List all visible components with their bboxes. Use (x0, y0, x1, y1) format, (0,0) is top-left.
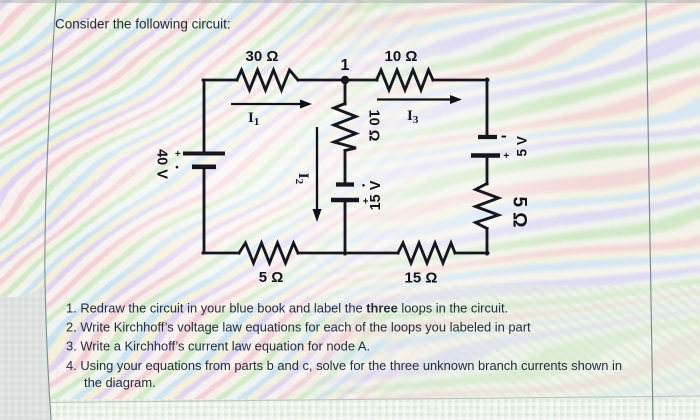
battery V1 40V plate long (+) (183, 152, 225, 156)
svg-text:1. Redraw the circuit in your: 1. Redraw the circuit in your blue book … (66, 300, 508, 315)
current arrow I2 (316, 127, 318, 211)
resistor R6 15ohm zigzag (398, 243, 455, 263)
resistor R5 5ohm vertical zigzag (476, 184, 499, 229)
wire middle vertical from node 1 (344, 80, 347, 104)
battery V1 40V plate short (-) (192, 165, 216, 170)
svg-text:5 Ω: 5 Ω (509, 196, 530, 227)
battery V2 15V plate short (-) (336, 182, 354, 186)
wire middle (R3 to battery V2) (344, 151, 347, 185)
wire right vertical mid (battery V3 to R5) (486, 156, 489, 184)
svg-text:I1: I1 (248, 110, 259, 128)
svg-text:5 V: 5 V (515, 136, 530, 156)
resistor R4 5ohm bottom zigzag (239, 243, 298, 263)
wire top middle through node 1 (298, 79, 377, 82)
svg-text:10 Ω: 10 Ω (385, 48, 418, 65)
svg-text:15 V: 15 V (368, 180, 384, 210)
svg-text:+: + (175, 149, 181, 160)
svg-text:40 V: 40 V (154, 149, 170, 179)
battery V2 polarity marks (362, 184, 365, 187)
wire right vertical bottom (486, 229, 489, 255)
wire left vertical bottom (battery V1 bottom lead) (203, 168, 206, 253)
resistor R1 30ohm zigzag (237, 70, 298, 90)
svg-text:the diagram.: the diagram. (84, 375, 156, 390)
battery V3 5V plate short (-) (478, 135, 497, 139)
wire bottom-left horizontal (203, 252, 239, 255)
svg-text:Consider the following circuit: Consider the following circuit: (55, 17, 231, 32)
current arrow I1 (231, 103, 303, 105)
battery V3 5V plate long (+) (471, 153, 500, 157)
svg-text:1: 1 (341, 57, 350, 74)
wire bottom middle (298, 252, 398, 255)
battery V3 polarity marks (502, 136, 507, 138)
wire left vertical top (battery V1 top lead) (203, 80, 206, 152)
svg-text:+: + (363, 197, 369, 208)
node 1 junction dot (341, 76, 349, 84)
wire right vertical top (battery V3 top lead) (486, 79, 489, 136)
svg-text:15 Ω: 15 Ω (405, 270, 438, 287)
svg-text:4. Using your equations from p: 4. Using your equations from parts b and… (66, 358, 622, 373)
resistor R3 10ohm middle vertical zigzag (334, 104, 356, 151)
svg-text:I3: I3 (407, 108, 419, 126)
svg-text:+: + (503, 151, 509, 162)
svg-text:30 Ω: 30 Ω (246, 48, 279, 65)
svg-text:3. Write a Kirchhoff’s current: 3. Write a Kirchhoff’s current law equat… (66, 339, 370, 354)
svg-text:10 Ω: 10 Ω (366, 110, 382, 142)
wire top-right horizontal (433, 79, 488, 82)
resistor R2 10ohm zigzag top right (377, 70, 434, 90)
svg-text:5 Ω: 5 Ω (259, 269, 284, 286)
svg-text:2. Write Kirchhoff’s voltage l: 2. Write Kirchhoff’s voltage law equatio… (66, 320, 531, 335)
current arrow I3 (377, 98, 453, 100)
battery V2 15V plate long (+) (331, 198, 359, 202)
wire top-left horizontal (203, 79, 237, 82)
wire bottom-right horizontal (455, 252, 488, 255)
svg-text:I2: I2 (293, 173, 311, 185)
wire middle bottom (battery V2 to bottom wire) (344, 200, 347, 254)
